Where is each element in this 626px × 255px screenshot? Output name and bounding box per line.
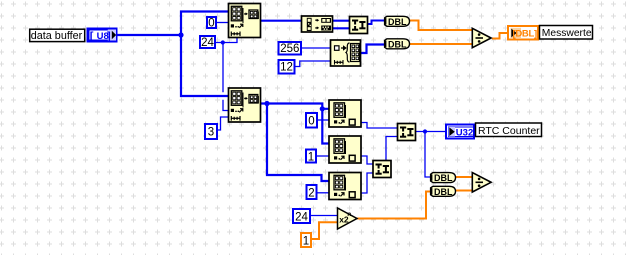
wire: constant 1 to Index Array 2 index (317, 155, 330, 157)
wire: Index Array 2 out to Join B upper (361, 156, 374, 164)
label: data buffer (30, 29, 85, 42)
wire: constant 256 to Initialize Array dim1 (301, 47, 331, 49)
svg-text:0: 0 (208, 17, 214, 29)
wire: Decimate out B to Join top (333, 27, 350, 29)
wire: Decimate out A to Join top (333, 20, 350, 22)
index array node 2 (329, 136, 361, 163)
wire: Join top out to To-DBL 1 (367, 21, 385, 25)
wire: constant 24 branch down to Array Subset 2 index (gap at crossing) (223, 43, 229, 111)
junction: data buffer split (178, 32, 183, 37)
svg-text:256: 256 (280, 43, 299, 55)
junction: RTC value split (423, 129, 427, 133)
join numbers node B (373, 161, 391, 178)
wire: Join B out to Join A lower (386, 137, 398, 161)
constant 12 (279, 60, 295, 74)
svg-text:data buffer: data buffer (31, 30, 83, 42)
wire: constant 12 to Initialize Array dim2 (295, 61, 331, 67)
wire: Array Subset 2 out to Index Array 1 (260, 104, 330, 109)
divide node 1 (472, 28, 491, 47)
wire: branch down to Index Array 3 (267, 104, 330, 182)
terminal: Messwerte [DBL] array indicator (508, 26, 538, 40)
wire: Array Subset 1 out to Decimate (260, 20, 302, 22)
wire: Index Array 1 out to Join A upper (361, 123, 398, 129)
svg-text:RTC Counter: RTC Counter (478, 125, 540, 137)
scale by power of 2 node (338, 208, 358, 229)
to-double node 4 (431, 186, 456, 197)
svg-text:12: 12 (280, 62, 293, 74)
to-double node 1 (385, 16, 410, 27)
wire: constant 24 to Scale-by-2^n upper (311, 215, 338, 217)
constant 1 (index) (306, 150, 316, 164)
index array node 1 (329, 100, 361, 127)
to-double node 2 (385, 39, 410, 50)
wire: Divide 1 out to Messwerte (492, 33, 508, 39)
JUNCTION DOTS (178, 32, 427, 133)
index array node 3 (329, 173, 361, 200)
array subset node 2 (229, 88, 261, 122)
svg-text:1: 1 (303, 235, 309, 247)
decimate 1d array node (302, 16, 333, 32)
svg-text:[: [ (90, 30, 94, 42)
divide node 2 (472, 173, 491, 192)
wire: array branch up to Array Subset 1 (181, 12, 229, 36)
wire: constant 24 to Array Subset 1 length (216, 37, 238, 43)
wire: Initialize Array out to To-DBL 2 (361, 45, 385, 54)
wire: To-DBL 3 out to Divide 2 upper (455, 176, 472, 178)
junction: constant 24 split (221, 40, 225, 44)
junction: index array split (320, 106, 325, 111)
svg-text:U32: U32 (456, 127, 473, 138)
svg-text:24: 24 (295, 211, 308, 223)
wire: constant 0 to Array Subset 1 index (217, 22, 229, 24)
wire: constant 1 to Scale-by-2^n lower (312, 222, 338, 239)
svg-text:Messwerte: Messwerte (542, 28, 592, 39)
label: RTC Counter (476, 123, 542, 137)
label: Messwerte (540, 26, 593, 40)
svg-text:]: ] (107, 30, 111, 42)
array subset node 1 (229, 4, 261, 38)
constant 24 (top) (200, 36, 215, 49)
wire: Index Array 3 out to Join B lower (361, 173, 374, 193)
svg-text:n: n (347, 211, 351, 218)
to-double node 3 (431, 173, 456, 184)
junction: subset2 array split (264, 101, 269, 106)
constant 2 (index) (307, 185, 317, 199)
wire: data buffer array main (118, 34, 182, 36)
constant 24 (bottom) (293, 209, 310, 223)
svg-text:2: 2 (308, 187, 314, 199)
constant 0 (top) (207, 17, 216, 29)
wire: To-DBL 1 out to Divide 1 upper (410, 21, 473, 31)
wire: To-DBL 4 out to Divide 2 lower (455, 190, 472, 192)
join numbers node (top) (350, 17, 368, 34)
wire: constant 3 to Array Subset 2 length (218, 117, 229, 130)
svg-text:1: 1 (308, 151, 314, 163)
constant 0 (index) (306, 113, 317, 128)
svg-text:24: 24 (201, 37, 214, 49)
constant 3 (205, 124, 217, 139)
svg-text:[DBL]: [DBL] (513, 29, 537, 40)
terminal: RTC Counter U32 indicator (446, 125, 474, 139)
terminal: data buffer [U8] array control (88, 29, 116, 42)
wire: constant 2 to Index Array 3 index (317, 192, 330, 194)
wire: branch down to To-DBL 3 (425, 132, 431, 178)
constant 1 (orange DBL) (301, 233, 311, 247)
wire: To-DBL 2 out to Divide 1 lower (410, 43, 473, 45)
join numbers node A (398, 124, 416, 141)
svg-text:0: 0 (308, 116, 314, 128)
svg-text:3: 3 (208, 127, 214, 139)
wire: Join A out to RTC Counter terminal (415, 131, 447, 133)
wire: array branch down to Array Subset 2 (181, 35, 229, 96)
constant 256 (279, 42, 302, 55)
wire: branch down to Index Array 2 (322, 109, 329, 144)
wire: constant 0 to Index Array 1 index (318, 119, 330, 121)
initialize array node (331, 40, 361, 66)
wire: Scale-by-2^n out to To-DBL 4 (357, 192, 431, 219)
